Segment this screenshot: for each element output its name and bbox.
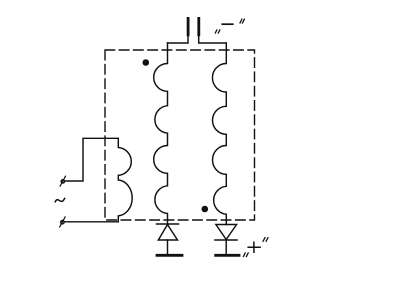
diode VD2 lead [225, 240, 227, 255]
label minus: closing quote [240, 19, 244, 23]
label plus: closing quote [263, 238, 268, 242]
secondary winding L3 (right) [212, 43, 226, 225]
diode VD1 cathode bar [157, 223, 179, 225]
wire primary top to AC terminal [65, 138, 119, 181]
diode VD2 cathode bar [215, 239, 237, 241]
polarity dot top left [143, 59, 150, 66]
wire right prong to right winding [199, 36, 227, 43]
wire left prong to left winding [168, 36, 189, 43]
transformer boundary dashed box [105, 50, 255, 220]
AC tilde symbol [55, 198, 64, 201]
wire primary bottom to AC terminal [65, 221, 119, 223]
diode VD1 triangle [158, 225, 177, 241]
AC input terminal top [60, 176, 65, 186]
output terminal bar plus left [157, 254, 182, 257]
terminal bar minus right prong [197, 17, 200, 36]
label plus: plus sign [248, 242, 260, 252]
terminal bar minus left prong [187, 17, 190, 36]
output terminal bar plus right [216, 254, 239, 257]
diode VD1 lead [167, 240, 169, 255]
polarity dot bottom right [202, 206, 209, 213]
AC input terminal bottom [60, 217, 65, 227]
secondary winding L2 (left) [154, 43, 168, 224]
diode VD2 triangle [216, 225, 237, 240]
label plus: opening quote [243, 253, 248, 257]
label minus: minus sign [222, 23, 233, 25]
label minus: opening quote [215, 30, 220, 33]
primary winding L1 [118, 138, 132, 222]
